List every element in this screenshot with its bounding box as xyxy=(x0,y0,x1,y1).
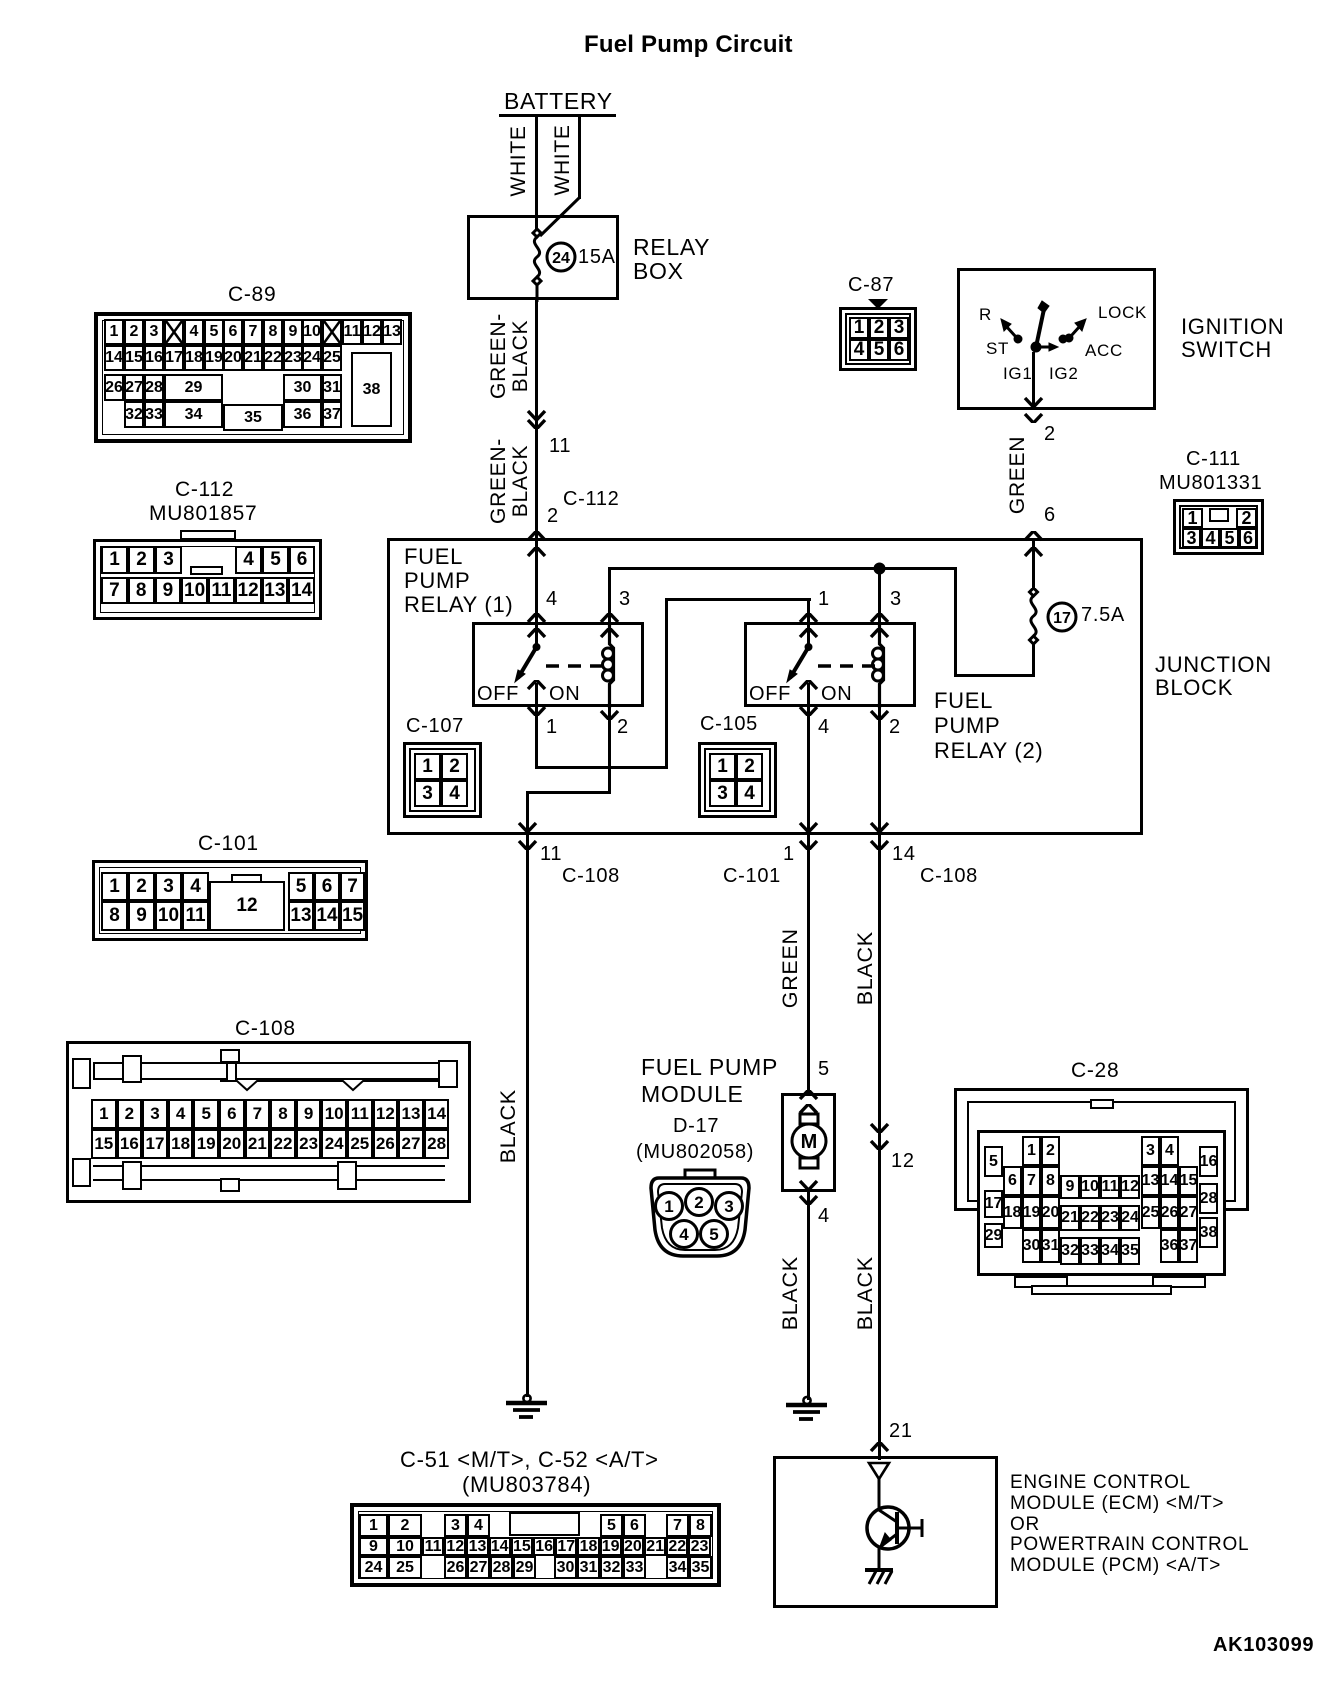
relay2 pin 3 label xyxy=(890,589,902,610)
svg-text:5: 5 xyxy=(709,1225,718,1244)
label FUEL PUMP RELAY (1) xyxy=(404,545,513,617)
label JUNCTION BLOCK xyxy=(1155,654,1272,699)
label IG2 xyxy=(1049,365,1079,383)
label FUEL PUMP RELAY (2) xyxy=(934,688,1043,763)
wire relay1 pin2 out of junction block xyxy=(608,707,611,794)
ignition switch rotary xyxy=(975,295,1135,365)
connector ref C-108 xyxy=(562,866,620,887)
wire battery to relay box (left) xyxy=(535,117,538,236)
relay2 ON label xyxy=(821,684,852,705)
connector C-28 xyxy=(954,1088,1249,1211)
svg-text:1: 1 xyxy=(664,1197,673,1216)
relay box xyxy=(467,215,619,300)
connector C-105 label xyxy=(700,714,758,735)
connector ref C-101 xyxy=(723,866,781,887)
connector C-108 label xyxy=(235,1018,296,1040)
label GREEN (pump feed) xyxy=(779,925,802,1011)
wire into relay1 pin 4 xyxy=(535,541,538,622)
label ST xyxy=(986,340,1009,358)
relay1 pin 2 label xyxy=(617,717,629,738)
pin 21 label xyxy=(889,1421,913,1442)
label GREEN-BLACK (lower) xyxy=(488,435,532,527)
title: Fuel Pump Circuit xyxy=(584,33,793,58)
label BLACK (left) xyxy=(497,1084,520,1168)
relay1 coil xyxy=(598,622,628,708)
connector C-101 label xyxy=(198,833,259,855)
label GREEN-BLACK (upper) xyxy=(488,310,532,402)
connector C-89 xyxy=(94,312,412,443)
fuse 17 7.5A xyxy=(1021,588,1121,680)
wire relay1 pin1 to relay2 pin1 xyxy=(535,707,538,769)
wire 11 C-108 BLACK to ground xyxy=(526,835,529,1397)
relay2 coil xyxy=(868,622,898,708)
pin 11 label xyxy=(540,844,562,865)
wire pump to ground BLACK xyxy=(807,1192,810,1400)
wire ignition switch down xyxy=(1032,352,1035,410)
relay R1 FUEL PUMP RELAY (1) box xyxy=(472,622,644,707)
connector C-101 xyxy=(92,860,368,941)
svg-text:3: 3 xyxy=(724,1197,733,1216)
relay1 ON label xyxy=(549,684,580,705)
wire 14 C-108 BLACK to ECM xyxy=(878,835,881,1460)
connector C-107 label xyxy=(406,716,464,737)
label BLACK (pump ground) xyxy=(779,1251,802,1335)
connector C-28 label xyxy=(1071,1060,1119,1082)
node BATTERY xyxy=(504,90,613,114)
wire relay2 pin4 out of junction block xyxy=(807,707,810,835)
label RELAY BOX xyxy=(633,236,710,284)
arrows up crossing junction block top xyxy=(526,531,547,544)
connector C-112 label xyxy=(175,479,234,501)
arrows up relay1 pin4 xyxy=(526,613,547,626)
wire 1 C-101 GREEN to fuel pump xyxy=(807,835,810,1093)
relay1 dashed link xyxy=(546,663,606,669)
svg-text:17: 17 xyxy=(1053,610,1071,627)
relay1 switch lever xyxy=(505,622,575,692)
connector ref C-108 (right) xyxy=(920,866,978,887)
ECM input triangle xyxy=(866,1460,892,1482)
connector D-17 xyxy=(645,1168,755,1263)
pin 11 label xyxy=(549,436,571,457)
pin 12 label xyxy=(891,1151,915,1172)
motor M xyxy=(788,1110,830,1172)
pin 2 label xyxy=(547,506,559,527)
pin 6 label xyxy=(1044,505,1056,526)
svg-text:4: 4 xyxy=(679,1225,689,1244)
C-108 bottom latch xyxy=(93,1165,445,1167)
pin 4 label xyxy=(818,1206,830,1227)
pin 5 label xyxy=(818,1059,830,1080)
connector C-89 label xyxy=(228,284,276,306)
label WHITE (right wire) xyxy=(552,118,574,202)
ignition switch box xyxy=(957,268,1156,410)
relay2 plunger double arrow xyxy=(798,680,819,693)
junction block xyxy=(387,538,1143,835)
label GREEN xyxy=(1007,432,1029,518)
transistor Q1 xyxy=(855,1478,945,1593)
label WHITE (left wire) xyxy=(508,119,530,203)
pin 1 label xyxy=(783,844,795,865)
label BLACK (right upper) xyxy=(854,926,877,1010)
pin 4 label xyxy=(546,589,558,610)
pin 3 label xyxy=(619,589,631,610)
ground (pump) xyxy=(780,1395,836,1425)
label BLACK (right lower) xyxy=(854,1251,877,1335)
relay R2 FUEL PUMP RELAY (2) box xyxy=(744,622,916,707)
code AK103099 xyxy=(1213,1635,1314,1656)
fuel pump module box xyxy=(781,1093,836,1192)
connector C-87 pointer xyxy=(866,297,890,311)
svg-text:24: 24 xyxy=(552,250,570,267)
relay2 pin 1 label xyxy=(818,589,830,610)
label IG1 xyxy=(1003,365,1033,383)
connector C-107 xyxy=(403,742,482,818)
svg-text:M: M xyxy=(801,1131,818,1153)
label LOCK xyxy=(1098,304,1147,322)
arrows up relay2 pin1 xyxy=(798,613,819,626)
relay2 pin 2 label xyxy=(889,717,901,738)
label IGNITION SWITCH xyxy=(1181,315,1284,361)
relay1 pin 1 label xyxy=(546,717,558,738)
relay2 pin 4 label xyxy=(818,717,830,738)
connector C-111 xyxy=(1173,499,1264,555)
wire ignition feed distribution xyxy=(608,567,611,622)
fuse 24 15A xyxy=(525,228,625,303)
label ENGINE CONTROL MODULE xyxy=(1010,1473,1249,1577)
connector C-51/C-52 xyxy=(350,1503,721,1587)
C-108 top latch xyxy=(93,1062,445,1064)
svg-text:2: 2 xyxy=(694,1193,703,1212)
ECM box xyxy=(773,1456,998,1608)
connector ref C-112 xyxy=(563,489,620,510)
connector C-108 xyxy=(66,1041,471,1203)
label R xyxy=(979,306,992,324)
wire battery to fuse (right) xyxy=(578,117,581,199)
relay2 dashed link xyxy=(818,663,878,669)
label D-17 (MU802058) xyxy=(673,1116,719,1137)
relay1 plunger double arrow xyxy=(526,680,547,693)
connector C-105 xyxy=(698,742,777,818)
connector C-112 xyxy=(180,530,236,540)
pin 2 label xyxy=(1044,424,1056,445)
pin 14 label xyxy=(892,844,916,865)
connector C-89 pin 38 xyxy=(351,352,392,427)
ground (left) xyxy=(500,1393,556,1423)
arrow down on wire xyxy=(526,407,547,429)
wire relay box to junction block GREEN-BLACK xyxy=(535,300,538,540)
wire ignition into junction block xyxy=(1032,541,1035,594)
wire relay2 pin2 out of junction block xyxy=(878,707,881,835)
relay1 OFF label xyxy=(477,684,519,705)
label ACC xyxy=(1085,342,1123,360)
connector C-51/C-52 label xyxy=(400,1449,659,1472)
connector C-111 label xyxy=(1186,449,1241,470)
label FUEL PUMP MODULE xyxy=(641,1054,778,1108)
connector C-87 label xyxy=(848,275,894,296)
junction dot xyxy=(872,561,887,576)
relay2 switch lever xyxy=(777,622,847,692)
relay2 OFF label xyxy=(749,684,791,705)
connector C-87 xyxy=(839,307,917,371)
